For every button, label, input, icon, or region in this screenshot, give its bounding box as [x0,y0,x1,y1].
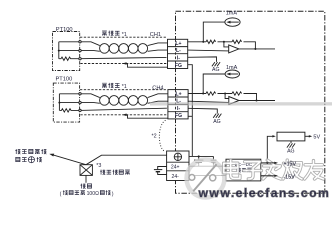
channels-omitted dotted arc *2 [159,120,165,151]
analog ground AG at resistor [290,141,292,143]
current source 1mA top (ellipse with arrow) [225,18,240,26]
analog ground AG row2 [213,114,221,118]
svg-text:L+: L+ [175,41,181,47]
svg-text:*2: *2 [152,134,157,140]
note text: system ground point (hanzi) [100,170,105,175]
svg-text:(: ( [60,191,62,197]
svg-text:AG: AG [213,119,221,125]
watermark logo small circle left [189,175,195,181]
wire L- coil to CH4 [148,101,168,103]
wire to current source 1 [203,22,225,42]
junction dot RTD box1 [58,50,60,52]
svg-text:1mA: 1mA [226,65,238,71]
resistor R5V (box style) [277,132,305,141]
RTD internal wiring box2 [59,94,79,111]
svg-text:-15V: -15V [283,175,295,181]
wire to current source 2 [203,74,225,94]
opamp1 output wire [239,48,275,50]
svg-text:): ) [112,191,114,197]
op-amp U2 [229,97,239,105]
svg-text:AG: AG [287,148,295,154]
wire ground to power-module arrow [54,155,87,165]
svg-text:FG: FG [175,113,182,119]
note text line2 (hanzi + circled plus) [16,157,20,161]
svg-text:PT100: PT100 [56,77,73,83]
resistor (RTD element) box2 [59,109,79,112]
resistor R2 row2 [232,92,242,95]
junction dot 15V [266,162,268,164]
wire L+ CH4 to R chain [188,94,256,101]
svg-text:24-: 24- [172,174,180,180]
junction dots row2 [202,92,204,94]
svg-text:FG: FG [175,63,182,69]
wire +15V out [261,162,276,164]
shield bottom dashed row2 [80,114,166,116]
wire L+ row2 [80,94,100,98]
shield-to-FG hook row1 [127,64,168,68]
watermark logo ring [187,160,225,198]
twisted pair coil row1 [100,44,110,54]
wire L+ coil to CH4 [148,94,168,98]
wire L- to opamp1 -in [188,49,229,52]
system ground point box-X [80,165,92,176]
capacitor C2 [211,156,217,166]
svg-text:PT100: PT100 [56,27,73,33]
RTD internal wiring box1 [59,42,79,59]
battery 24V [154,167,167,175]
PT100 sensor box 2 (dashed) [53,83,79,122]
wire +15V up to 5V resistor [267,136,274,163]
wire FG CH4 to down wire [188,115,192,117]
wire L- row1 [80,50,100,53]
wire ground to FG terminal [86,155,167,165]
DC-DC converter box [226,159,261,181]
redraw +15V -15V labels over watermark [261,162,276,164]
analog ground AG row1 [212,62,220,66]
wire 24- to DC-DC [189,175,226,177]
terminal circles box1 [79,41,81,43]
shield top dashed row1 [80,36,166,38]
svg-text:*3: *3 [96,163,101,169]
resistor R1 row1 [206,40,216,43]
svg-text:CH4: CH4 [152,85,163,91]
svg-text:*1: *1 [122,32,127,38]
wire L- row2 [80,102,100,105]
junction dot RTD box2 [58,102,60,104]
module boundary dash-dot box [176,11,325,193]
junction dot C1 [198,155,200,157]
svg-text:I-: I- [177,56,180,62]
ground stub down [85,175,87,182]
resistor R1 row2 [206,92,216,95]
wire L- to opamp2 -in [188,101,229,102]
terminal circles box2 [79,93,81,95]
wire I- CH1 to AG [188,57,217,62]
op-amp U1 [229,45,239,53]
current source 1mA mid (ellipse with arrow) [225,70,239,78]
wire opamp2 +in [225,94,229,99]
shield arrowhead row2 [122,114,126,117]
svg-text:L+: L+ [176,91,182,97]
twisted pair coil row2 [100,96,110,106]
junction dots row1 [202,41,204,43]
svg-text:AG: AG [212,67,220,73]
wire I- CH4 to AG [188,108,217,113]
wire L+ row1 [80,42,100,46]
watermark gray band [150,102,332,105]
wire FG CH1 down [188,65,193,157]
CH1 terminal block [168,39,188,68]
note text: to power module line1 (hanzi) [15,149,20,154]
svg-text:*1: *1 [122,84,127,90]
wire opamp1 +in [224,42,229,47]
watermark logo center [189,162,222,195]
wire I- row1 [80,57,167,58]
capacitor C1 [194,156,203,166]
svg-text:L-: L- [176,48,181,54]
label isolation-wire row2 (hanzi) + *1 [102,83,107,88]
wire L- coil to CH1 [148,50,168,51]
shield-to-FG hook row2 [127,115,168,118]
label isolation-wire row1 (hanzi) + *1 [102,31,107,36]
module boundary dashes through CH blocks [176,39,177,180]
pseudo label converter chars [236,168,240,172]
shield bottom dashed row1 [80,63,166,65]
wire L+ CH1 to R chain [188,42,256,49]
shield arrowhead row1 [122,62,126,65]
svg-text:I-: I- [177,106,180,112]
CH4 terminal block [168,90,188,119]
wire I- row2 [80,108,167,110]
watermark logo slash [193,164,216,191]
wire -15V out [261,175,276,177]
svg-text:24+: 24+ [171,165,180,171]
FG net line right of block [189,155,213,157]
resistor R2 row1 [232,40,242,43]
wire 24+ to DC-DC [189,165,226,167]
PT100 sensor box 1 (dashed) [53,32,80,71]
FG circled-plus terminal symbol [174,153,181,160]
power terminal block 24V [167,151,189,181]
resistor (RTD element) box1 [59,57,79,60]
watermark logo small circle right [210,175,216,181]
svg-text:CH1: CH1 [150,32,161,38]
svg-text:100Ω: 100Ω [87,191,99,197]
wire L+ coil to CH1 [148,43,168,46]
shield top dashed row2 [80,89,167,91]
wire 5V out [305,135,311,137]
svg-text:www.elecfans.com: www.elecfans.com [198,186,331,200]
note text: earth (hanzi) [80,184,85,189]
opamp2 output wire [239,100,275,102]
svg-text:5V: 5V [313,134,320,140]
svg-text:+15V: +15V [283,162,296,168]
svg-text:1mA: 1mA [226,11,238,17]
